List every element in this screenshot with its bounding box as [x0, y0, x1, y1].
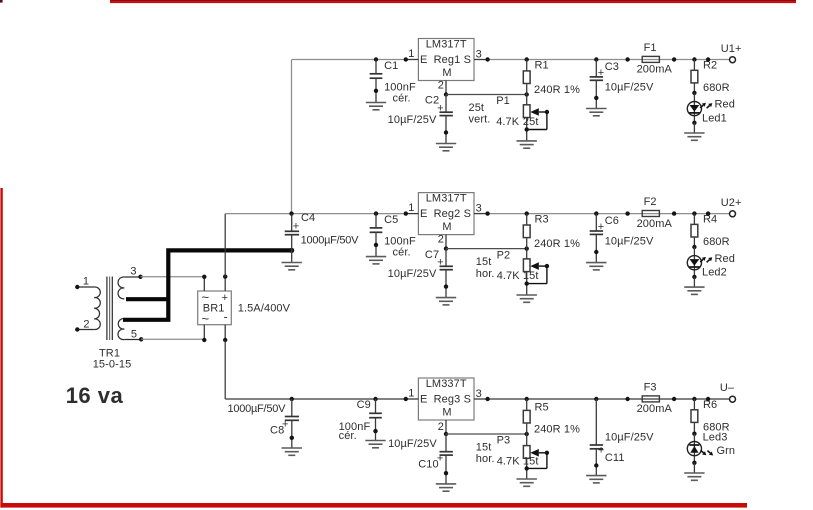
C8 labels [228, 403, 289, 437]
BR1 AC input stub bottom [202, 325, 206, 342]
capacitor C1 100nF ceramic [370, 57, 383, 102]
svg-text:E: E [420, 394, 427, 406]
P3 labels [476, 435, 539, 468]
wire Reg1 output rail to terminal U1+ [488, 59, 730, 61]
ground below Led2 [684, 287, 704, 294]
svg-text:Led2: Led2 [702, 267, 727, 279]
Reg1 input pin 1 stub [404, 57, 419, 61]
svg-text:3: 3 [476, 49, 482, 61]
svg-text:S: S [464, 54, 471, 66]
wire Reg3 output rail to terminal U- [488, 398, 730, 400]
capacitor C11 10uF electrolytic [590, 397, 603, 476]
svg-text:M: M [442, 67, 451, 79]
ground below P1 [517, 141, 537, 148]
Reg1 adjust pin 2 stub [444, 81, 448, 97]
ground below C5 [366, 257, 386, 264]
red border top line [110, 0, 796, 3]
resistor R4 680R [691, 211, 698, 249]
svg-text:1: 1 [83, 276, 89, 288]
ground below Led1 [684, 133, 704, 140]
capacitor C2 10uF electrolytic [440, 95, 453, 144]
svg-text:R6: R6 [703, 399, 717, 411]
transformer TR1 primary lead pin 1 [75, 285, 94, 289]
wire BR1 minus down to negative rail [224, 340, 226, 399]
svg-text:Red: Red [715, 99, 735, 111]
svg-text:16 va: 16 va [66, 383, 124, 408]
ground below C1 [366, 103, 386, 110]
svg-text:C2: C2 [425, 95, 439, 107]
svg-text:10µF/25V: 10µF/25V [605, 235, 654, 247]
wire negative rail to Reg3 input [225, 398, 406, 400]
R6 labels [703, 399, 730, 433]
svg-text:240R 1%: 240R 1% [534, 84, 580, 96]
svg-text:P2: P2 [497, 249, 511, 261]
svg-text:200mA: 200mA [637, 218, 673, 230]
svg-text:2: 2 [438, 234, 444, 246]
svg-text:4.7K: 4.7K [497, 455, 521, 467]
fuse F1 200mA [625, 56, 676, 62]
svg-text:Red: Red [715, 253, 735, 265]
svg-text:100nF: 100nF [384, 235, 416, 247]
junction on output wire [706, 57, 710, 61]
F2 labels [637, 196, 673, 230]
svg-text:Reg1: Reg1 [434, 54, 461, 66]
svg-text:5: 5 [131, 328, 137, 340]
F1 labels [637, 42, 673, 76]
svg-text:~: ~ [202, 311, 210, 326]
potentiometer P1 4.7K [523, 95, 549, 141]
svg-text:C6: C6 [605, 215, 619, 227]
C6 labels [598, 215, 654, 247]
potentiometer P2 4.7K [523, 249, 549, 295]
Led2 labels [702, 253, 735, 279]
capacitor C9 100nF ceramic [369, 397, 382, 441]
svg-text:F3: F3 [644, 382, 657, 394]
R2 labels [703, 60, 730, 94]
svg-text:Led1: Led1 [702, 113, 727, 125]
svg-text:4.7K: 4.7K [497, 270, 521, 282]
svg-text:vert.: vert. [469, 114, 491, 126]
svg-text:E: E [420, 208, 427, 220]
junction on output wire [706, 211, 710, 215]
Reg2 adjust pin 2 stub [444, 235, 448, 251]
svg-text:2: 2 [83, 319, 89, 331]
regulator LM317T Reg1 [418, 39, 474, 81]
svg-text:R3: R3 [535, 214, 549, 226]
resistor R1 240R 1% [523, 57, 530, 94]
svg-text:Led3: Led3 [703, 431, 728, 443]
C5 labels [384, 214, 416, 259]
svg-text:cér.: cér. [339, 430, 357, 442]
capacitor C3 10uF electrolytic [590, 57, 603, 108]
bridge rectifier BR1 [198, 291, 232, 325]
C11 labels [598, 431, 654, 464]
svg-text:1: 1 [408, 388, 414, 400]
junction on output wire [706, 397, 710, 401]
ground below C7 [436, 298, 456, 305]
BR1 AC input stub top [202, 275, 206, 291]
ground below P2 [517, 295, 537, 302]
ground below C6 [586, 263, 606, 270]
svg-text:R2: R2 [703, 60, 717, 72]
svg-text:hor.: hor. [476, 268, 495, 280]
svg-text:U–: U– [720, 382, 735, 394]
svg-text:1000µF/50V: 1000µF/50V [228, 403, 287, 415]
svg-text:C8: C8 [270, 424, 284, 436]
transformer TR1 secondary lead pin 5 [124, 337, 143, 341]
terminal U- [730, 396, 736, 402]
svg-text:15t: 15t [476, 256, 492, 268]
svg-text:1: 1 [408, 48, 414, 60]
svg-text:C10: C10 [418, 459, 438, 471]
svg-text:240R 1%: 240R 1% [534, 423, 580, 435]
ground below C3 [586, 109, 606, 116]
terminal U2+ [730, 211, 736, 217]
svg-text:M: M [442, 221, 451, 233]
svg-text:+: + [598, 445, 605, 457]
svg-text:S: S [464, 394, 471, 406]
svg-text:1: 1 [408, 202, 414, 214]
svg-text:10µF/25V: 10µF/25V [388, 268, 437, 280]
svg-text:3: 3 [476, 388, 482, 400]
svg-text:4.7K: 4.7K [496, 116, 520, 128]
wire center-tap bold bus to ground [123, 250, 292, 322]
svg-text:3: 3 [130, 265, 136, 277]
svg-text:25t: 25t [523, 116, 539, 128]
svg-text:2: 2 [438, 80, 444, 92]
svg-text:F1: F1 [644, 42, 657, 54]
capacitor C4 1000uF/50V [285, 211, 299, 250]
svg-text:10µF/25V: 10µF/25V [388, 114, 437, 126]
resistor R5 240R 1% [523, 397, 530, 434]
svg-text:S: S [464, 208, 471, 220]
svg-text:Grn: Grn [717, 445, 736, 457]
svg-text:+: + [598, 67, 605, 79]
C7 labels [388, 249, 444, 280]
svg-text:15t: 15t [523, 455, 539, 467]
wire Reg2 output rail to terminal U2+ [488, 213, 730, 215]
potentiometer P3 4.7K [523, 434, 549, 479]
terminal U1+ [730, 57, 736, 63]
LED Led2 [687, 247, 712, 287]
F3 labels [637, 382, 673, 416]
resistor R3 240R 1% [523, 211, 530, 248]
svg-text:Reg3: Reg3 [434, 394, 461, 406]
R3 labels [534, 214, 580, 250]
svg-text:U1+: U1+ [721, 43, 742, 55]
transformer TR1 secondary lead pin 3 [124, 275, 142, 279]
P1 labels [469, 95, 539, 128]
wire transformer pin3 to BR1 AC input [141, 276, 205, 278]
fuse F2 200mA [625, 211, 676, 217]
svg-text:10µF/25V: 10µF/25V [605, 431, 654, 443]
capacitor C5 100nF ceramic [370, 211, 383, 256]
Led1 labels [702, 99, 735, 125]
svg-text:15t: 15t [476, 442, 492, 454]
BR1 positive output stub [223, 274, 227, 291]
svg-text:U2+: U2+ [721, 197, 742, 209]
svg-text:200mA: 200mA [637, 403, 673, 415]
C3 labels [598, 61, 654, 93]
regulator LM337T Reg3 [418, 378, 474, 420]
ground below P3 [517, 479, 537, 486]
C10 labels [388, 438, 443, 471]
wire positive rail riser to Reg1 [291, 60, 293, 214]
transformer TR1 secondary winding upper [118, 277, 124, 299]
wire adjust pin to P3 junction [446, 432, 529, 436]
C2 labels [388, 95, 444, 126]
svg-text:cér.: cér. [393, 93, 411, 105]
svg-text:680R: 680R [703, 82, 730, 94]
resistor R6 680R [691, 397, 698, 436]
red corner mark top-left [0, 0, 3, 3]
svg-text:C1: C1 [384, 60, 398, 72]
wire adjust pin to P2 junction [446, 246, 529, 250]
svg-text:C7: C7 [425, 249, 439, 261]
ground below Led3 [684, 473, 704, 480]
R4 labels [703, 214, 730, 248]
ground below C9 [365, 441, 385, 448]
svg-text:Reg2: Reg2 [434, 208, 461, 220]
svg-text:C3: C3 [605, 61, 619, 73]
transformer TR1 primary lead pin 2 [75, 327, 94, 331]
svg-text:2: 2 [438, 421, 444, 433]
svg-text:hor.: hor. [476, 453, 495, 465]
svg-text:C11: C11 [605, 452, 625, 464]
capacitor C7 10uF electrolytic [440, 249, 453, 298]
junction center-tap bus at C4 ground node [289, 248, 294, 253]
R5 labels [534, 402, 580, 436]
svg-text:R5: R5 [535, 402, 549, 414]
Reg2 output pin 3 stub [474, 211, 490, 215]
capacitor C6 10uF electrolytic [590, 211, 603, 262]
wire positive rail to Reg2 input [225, 213, 406, 215]
svg-text:10µF/25V: 10µF/25V [388, 438, 437, 450]
C4 labels [293, 212, 359, 246]
svg-text:1.5A/400V: 1.5A/400V [238, 302, 291, 314]
svg-text:3: 3 [476, 203, 482, 215]
R1 labels [534, 60, 580, 96]
Reg3 output pin 3 stub [474, 397, 490, 401]
wire transformer pin5 to BR1 AC input [141, 338, 204, 340]
svg-text:M: M [442, 406, 451, 418]
C9 labels [339, 399, 371, 442]
ground below C8 [282, 448, 302, 455]
wire BR1 plus up to positive rail [224, 214, 226, 277]
wire adjust pin to P1 junction [446, 92, 529, 96]
resistor R2 680R [691, 57, 698, 95]
svg-text:-: - [224, 310, 228, 324]
capacitor C10 10uF electrolytic [440, 434, 453, 484]
svg-text:LM337T: LM337T [426, 378, 467, 390]
transformer TR1 secondary winding lower [118, 319, 124, 340]
svg-text:C5: C5 [384, 214, 398, 226]
BR1 negative output stub [223, 325, 227, 342]
LED Led1 [687, 93, 712, 133]
Reg3 adjust pin 2 stub [444, 420, 448, 436]
svg-text:R1: R1 [535, 60, 549, 72]
svg-text:F2: F2 [644, 196, 657, 208]
svg-text:P1: P1 [496, 95, 510, 107]
svg-text:P3: P3 [497, 435, 511, 447]
svg-text:680R: 680R [703, 236, 730, 248]
svg-text:25t: 25t [469, 102, 485, 114]
svg-text:240R 1%: 240R 1% [534, 238, 580, 250]
svg-text:E: E [420, 54, 427, 66]
svg-text:cér.: cér. [393, 247, 411, 259]
red border bottom line [0, 503, 747, 508]
transformer TR1 core [107, 277, 112, 341]
Reg1 output pin 3 stub [474, 57, 490, 61]
ground below C11 [586, 476, 606, 483]
svg-text:100nF: 100nF [384, 81, 416, 93]
transformer TR1 primary winding [94, 287, 100, 330]
Led3 labels [703, 431, 736, 457]
svg-text:15-0-15: 15-0-15 [93, 359, 132, 371]
svg-text:15t: 15t [523, 270, 539, 282]
ground below C2 [436, 144, 456, 151]
P2 labels [476, 249, 539, 282]
svg-text:200mA: 200mA [637, 64, 673, 76]
Reg2 input pin 1 stub [404, 211, 419, 215]
svg-text:10µF/25V: 10µF/25V [605, 81, 654, 93]
svg-text:+: + [598, 221, 605, 233]
wire Reg1 input rail [292, 59, 406, 61]
Reg3 input pin 1 stub [404, 397, 419, 401]
ground main 0V node [291, 250, 293, 262]
svg-text:C9: C9 [357, 399, 371, 411]
svg-text:LM317T: LM317T [426, 39, 467, 51]
LED Led3 [687, 434, 713, 473]
regulator LM317T Reg2 [418, 193, 474, 235]
capacitor C8 1000uF/50V [285, 397, 299, 448]
svg-text:R4: R4 [703, 214, 717, 226]
C1 labels [384, 60, 416, 105]
svg-text:LM317T: LM317T [426, 193, 467, 205]
svg-text:1000µF/50V: 1000µF/50V [301, 234, 360, 246]
fuse F3 200mA [625, 396, 676, 402]
ground below C10 [436, 484, 456, 491]
red border left line [0, 188, 2, 508]
svg-text:+: + [293, 221, 300, 233]
svg-text:C4: C4 [301, 212, 315, 224]
